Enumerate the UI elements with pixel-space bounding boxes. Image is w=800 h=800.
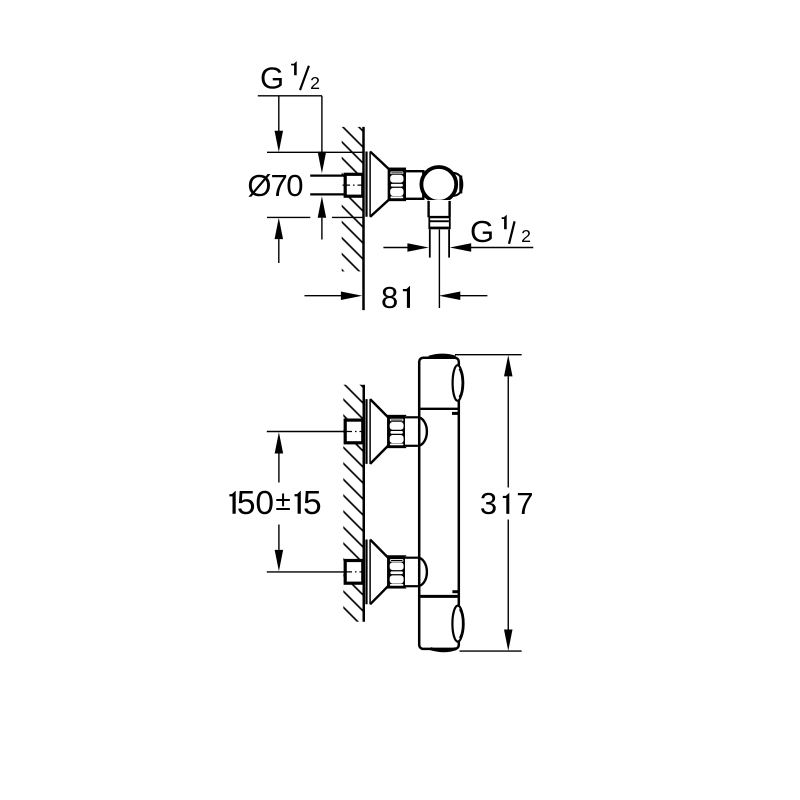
svg-text:G: G xyxy=(470,214,494,249)
svg-text:3: 3 xyxy=(480,486,497,521)
svg-text:2: 2 xyxy=(310,73,320,93)
svg-text:2: 2 xyxy=(521,226,531,246)
svg-text:8: 8 xyxy=(381,280,398,315)
svg-text:±: ± xyxy=(275,485,290,516)
svg-text:5: 5 xyxy=(237,485,256,522)
svg-text:G: G xyxy=(260,60,284,95)
svg-text:Ø: Ø xyxy=(247,168,271,203)
svg-text:0: 0 xyxy=(255,485,274,522)
svg-text:0: 0 xyxy=(286,168,303,203)
svg-text:5: 5 xyxy=(303,485,322,522)
svg-text:7: 7 xyxy=(270,168,287,203)
svg-text:7: 7 xyxy=(516,486,533,521)
